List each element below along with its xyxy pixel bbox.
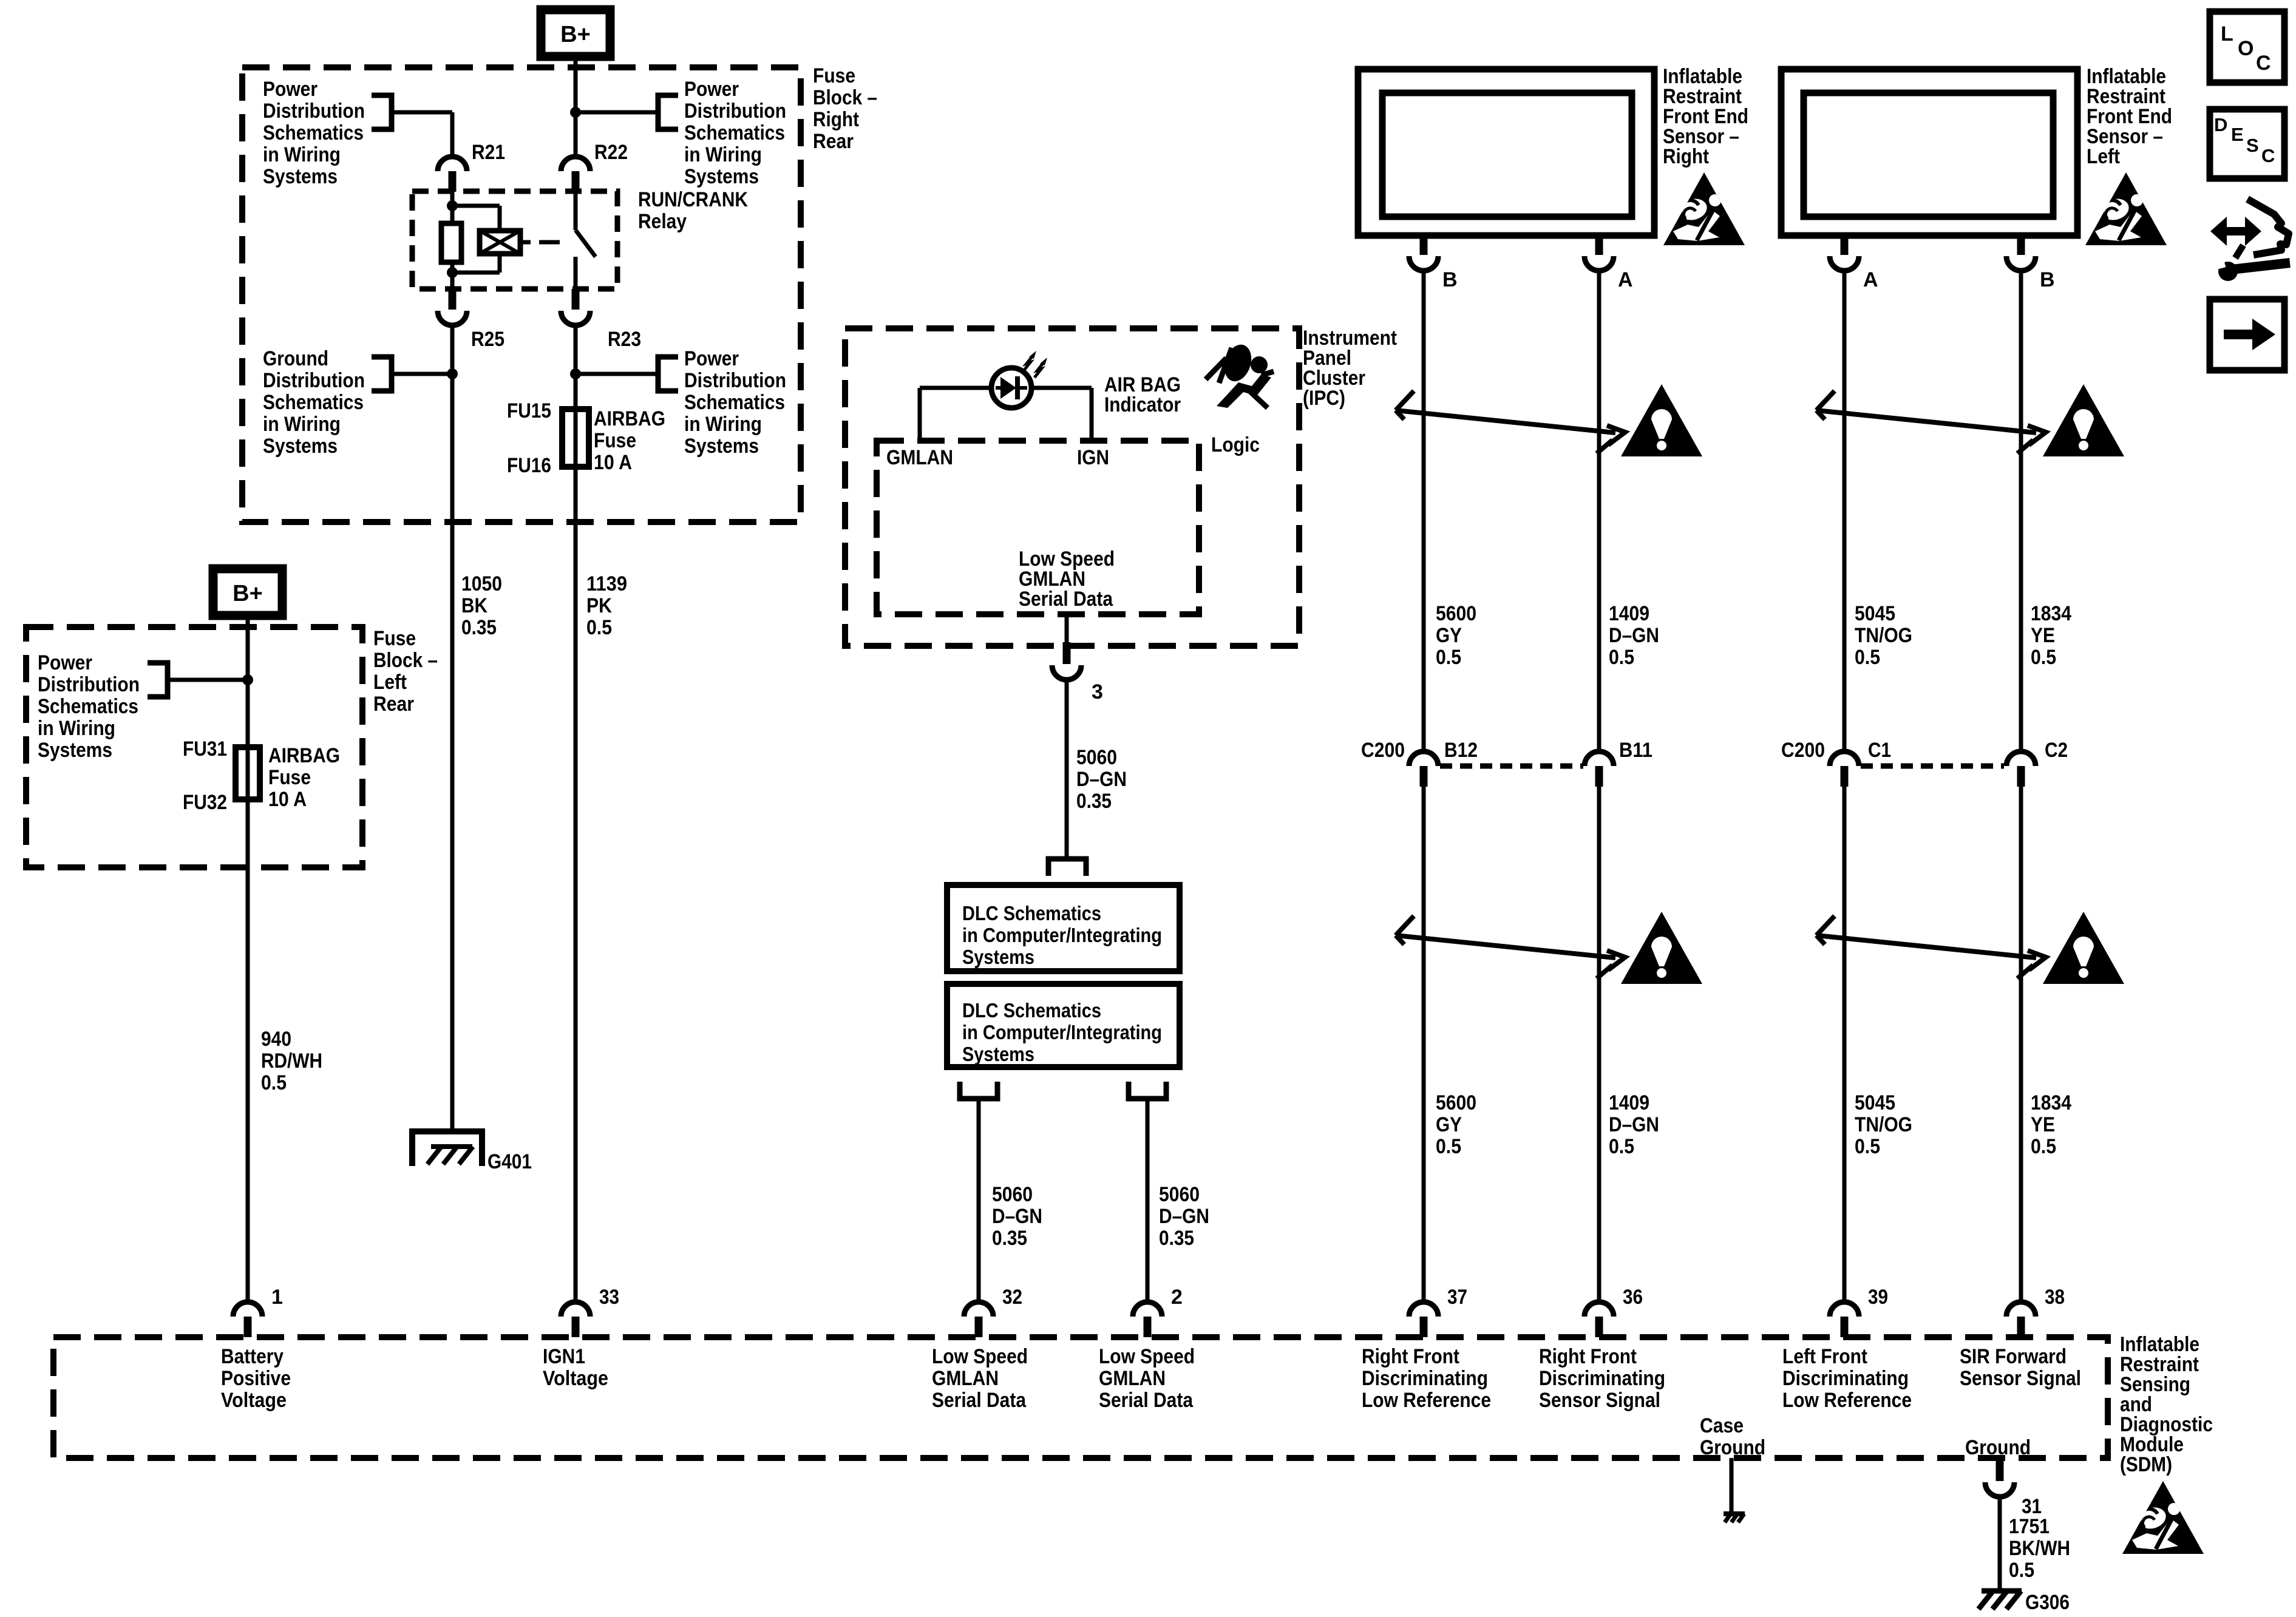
svg-text:Right: Right: [813, 108, 859, 131]
svg-text:0.5: 0.5: [1436, 1135, 1461, 1158]
connector R22: [561, 157, 590, 171]
svg-text:PK: PK: [586, 594, 612, 617]
wire below C200 x=3038: [1843, 787, 1847, 1302]
svg-text:Serial Data: Serial Data: [932, 1389, 1027, 1412]
caution arrow (top right pair): [1396, 391, 1625, 453]
svg-text:YE: YE: [2031, 624, 2055, 647]
svg-text:5600: 5600: [1436, 602, 1476, 625]
wire relay coil branch: [450, 192, 455, 223]
svg-text:1409: 1409: [1609, 1091, 1649, 1114]
icon DESC box: [2210, 109, 2284, 178]
svg-text:Block –: Block –: [373, 649, 438, 672]
svg-text:O: O: [2238, 37, 2254, 60]
svg-text:(SDM): (SDM): [2120, 1453, 2172, 1476]
wire sensor pin B down: [1422, 269, 1426, 751]
svg-text:Systems: Systems: [263, 435, 338, 458]
svg-text:S: S: [2246, 135, 2259, 156]
svg-text:3: 3: [1092, 680, 1103, 703]
icon LOC box: [2210, 12, 2284, 83]
node B+ junction: [570, 107, 581, 118]
svg-text:RD/WH: RD/WH: [261, 1049, 322, 1073]
svg-text:Block –: Block –: [813, 86, 877, 109]
wire 1751 BK/WH 0.5: [1998, 1497, 2002, 1590]
caution arrow (mid right pair): [1396, 916, 1625, 978]
svg-text:D–GN: D–GN: [992, 1205, 1042, 1228]
svg-text:Schematics: Schematics: [684, 391, 785, 414]
svg-text:33: 33: [599, 1286, 619, 1309]
svg-text:36: 36: [1623, 1286, 1643, 1309]
svg-text:Left: Left: [2087, 145, 2120, 168]
svg-text:Distribution: Distribution: [263, 369, 365, 392]
svg-text:0.35: 0.35: [1076, 790, 1112, 813]
svg-text:C200: C200: [1361, 739, 1405, 762]
svg-text:Logic: Logic: [1211, 433, 1260, 456]
connector SDM pin 33: [561, 1302, 590, 1317]
svg-text:B+: B+: [560, 22, 591, 47]
warning triangle (mid left): [2043, 912, 2124, 984]
svg-text:Ground: Ground: [263, 347, 328, 370]
connector SDM pin 36: [1584, 1302, 1614, 1317]
bracket DLC in: [1048, 859, 1086, 876]
wire junction to power distribution bracket: [576, 110, 658, 115]
svg-text:Systems: Systems: [684, 165, 759, 188]
bracket ground distribution: [372, 357, 392, 391]
switch relay contacts: [574, 192, 578, 230]
svg-text:Schematics: Schematics: [263, 391, 364, 414]
dashed link C200 right: [1440, 764, 1583, 769]
svg-text:GY: GY: [1436, 1113, 1462, 1136]
icon air bag triangle (SDM): [2122, 1481, 2204, 1554]
connector sensor pin A at x=2634: [1595, 236, 1603, 255]
svg-text:DLC Schematics: DLC Schematics: [962, 902, 1101, 924]
node coil top: [447, 200, 458, 211]
icon air bag triangle (sensor left): [2085, 172, 2167, 245]
svg-text:GMLAN: GMLAN: [1099, 1367, 1166, 1390]
svg-text:39: 39: [1868, 1286, 1888, 1309]
ground case ground symbol: [1724, 1511, 1745, 1516]
connector SDM pin 37: [1409, 1302, 1438, 1317]
svg-text:in Computer/Integrating: in Computer/Integrating: [962, 1021, 1162, 1043]
wire IGN1 through fuse: [574, 324, 578, 469]
svg-text:Fuse: Fuse: [594, 429, 636, 452]
svg-text:(IPC): (IPC): [1303, 387, 1345, 410]
svg-text:Discriminating: Discriminating: [1782, 1367, 1909, 1390]
svg-text:940: 940: [261, 1028, 291, 1051]
svg-text:0.5: 0.5: [2031, 646, 2056, 669]
wire low speed GMLAN serial data 32: [977, 1099, 981, 1302]
svg-text:0.5: 0.5: [2009, 1559, 2034, 1582]
svg-text:Low Speed: Low Speed: [1099, 1345, 1195, 1368]
svg-text:in Wiring: in Wiring: [263, 413, 341, 436]
wire low speed GMLAN serial data 2: [1146, 1099, 1150, 1302]
caution arrow (top left pair): [1816, 391, 2046, 453]
svg-text:Distribution: Distribution: [263, 100, 365, 123]
svg-text:Power: Power: [263, 78, 318, 101]
connector SDM pin 1: [233, 1302, 262, 1317]
svg-text:Right Front: Right Front: [1539, 1345, 1637, 1368]
svg-text:D–GN: D–GN: [1076, 768, 1127, 791]
svg-text:Fuse: Fuse: [373, 627, 416, 650]
svg-text:E: E: [2231, 124, 2244, 145]
svg-text:38: 38: [2045, 1286, 2065, 1309]
node coil bottom: [447, 267, 458, 278]
svg-text:GY: GY: [1436, 624, 1462, 647]
svg-text:in Wiring: in Wiring: [263, 143, 341, 166]
svg-text:C2: C2: [2045, 739, 2068, 762]
ground G401: [412, 1131, 482, 1166]
svg-text:0.5: 0.5: [1855, 646, 1880, 669]
node power distribution tap (left rear): [242, 674, 253, 685]
connector B11: [1584, 751, 1614, 766]
connector SDM pin 31: [1996, 1458, 2004, 1481]
LED light arrows: [1024, 355, 1033, 371]
svg-text:GMLAN: GMLAN: [932, 1367, 999, 1390]
svg-text:Voltage: Voltage: [543, 1367, 608, 1390]
svg-text:0.5: 0.5: [1855, 1135, 1880, 1158]
ground G306: [1982, 1588, 2022, 1594]
svg-text:D–GN: D–GN: [1609, 1113, 1659, 1136]
svg-text:1834: 1834: [2031, 602, 2071, 625]
svg-text:R25: R25: [471, 328, 504, 351]
connector sensor pin B at x=2345: [1420, 236, 1428, 255]
connector pin 3 (IPC): [1065, 614, 1069, 643]
svg-text:in Wiring: in Wiring: [38, 717, 115, 740]
svg-text:TN/OG: TN/OG: [1855, 624, 1912, 647]
svg-text:Serial Data: Serial Data: [1099, 1389, 1194, 1412]
wire B+ feed to R22: [574, 56, 578, 157]
svg-text:Systems: Systems: [263, 165, 338, 188]
connector R23: [572, 289, 580, 310]
box inflatable restraint front end sensor right: [1358, 69, 1654, 236]
svg-text:B: B: [1442, 268, 1458, 291]
svg-text:B11: B11: [1619, 739, 1652, 762]
svg-text:Systems: Systems: [684, 435, 759, 458]
connector SDM pin 2: [1133, 1302, 1162, 1317]
power symbol B+ (fuse block right rear): [541, 10, 610, 56]
svg-text:10 A: 10 A: [594, 451, 632, 474]
svg-text:R22: R22: [594, 141, 628, 164]
wire 5060 D-GN 0.35: [1065, 680, 1069, 858]
svg-text:BK: BK: [461, 594, 487, 617]
svg-text:in Wiring: in Wiring: [684, 413, 762, 436]
svg-text:Serial Data: Serial Data: [1019, 588, 1113, 611]
svg-text:37: 37: [1447, 1286, 1467, 1309]
svg-text:C: C: [2256, 52, 2271, 75]
svg-text:1409: 1409: [1609, 602, 1649, 625]
connector C200 B12: [1409, 751, 1438, 766]
svg-text:Discriminating: Discriminating: [1362, 1367, 1488, 1390]
svg-text:C1: C1: [1868, 739, 1891, 762]
node ground distribution tap: [447, 368, 458, 379]
icon wrench and route: [2210, 199, 2290, 281]
dashed link C200 left: [1861, 764, 2004, 769]
svg-text:Sensor Signal: Sensor Signal: [1539, 1389, 1660, 1412]
wire IGN1 voltage 1139 PK: [574, 467, 578, 1302]
icon air bag (IPC): [1206, 341, 1274, 408]
wire below C200 x=2634: [1597, 787, 1601, 1302]
svg-text:IGN1: IGN1: [543, 1345, 585, 1368]
svg-text:0.5: 0.5: [1436, 646, 1461, 669]
svg-text:Rear: Rear: [813, 130, 854, 153]
SDM box (inflatable restraint sensing and diagnostic module): [53, 1337, 2108, 1458]
svg-text:FU32: FU32: [183, 791, 227, 814]
svg-text:1751: 1751: [2009, 1515, 2050, 1538]
svg-text:G401: G401: [487, 1150, 532, 1173]
box DLC schematics 1: [947, 885, 1180, 971]
svg-text:Low Speed: Low Speed: [932, 1345, 1028, 1368]
svg-text:DLC Schematics: DLC Schematics: [962, 999, 1101, 1022]
instrument panel cluster box (IPC): [845, 328, 1299, 646]
svg-text:L: L: [2221, 22, 2233, 46]
svg-text:Fuse: Fuse: [813, 64, 855, 87]
svg-text:5060: 5060: [992, 1183, 1033, 1206]
bracket power distribution (fuse side): [658, 357, 678, 391]
svg-text:TN/OG: TN/OG: [1855, 1113, 1912, 1136]
connector R25: [449, 289, 457, 310]
svg-text:in Computer/Integrating: in Computer/Integrating: [962, 924, 1162, 946]
wire GMLAN to indicator: [918, 388, 922, 441]
node power distribution tap: [570, 368, 581, 379]
fuse FU15/FU16 AIRBAG fuse 10A: [562, 409, 589, 467]
svg-text:D–GN: D–GN: [1609, 624, 1659, 647]
svg-text:Power: Power: [684, 347, 739, 370]
svg-text:Systems: Systems: [962, 946, 1034, 968]
bracket power distribution (left): [372, 95, 392, 129]
svg-text:Indicator: Indicator: [1104, 393, 1181, 416]
svg-text:B: B: [2040, 268, 2055, 291]
svg-text:1834: 1834: [2031, 1091, 2071, 1114]
connector sensor pin A at x=3038: [1841, 236, 1849, 255]
svg-text:GMLAN: GMLAN: [886, 446, 953, 469]
svg-text:R23: R23: [608, 328, 641, 351]
svg-text:D: D: [2214, 114, 2227, 135]
svg-text:Case: Case: [1700, 1414, 1744, 1437]
svg-text:YE: YE: [2031, 1113, 2055, 1136]
svg-text:Systems: Systems: [962, 1043, 1034, 1065]
svg-text:0.5: 0.5: [1609, 646, 1634, 669]
svg-text:Left: Left: [373, 671, 407, 694]
fuse FU31/FU32 AIRBAG fuse 10A: [236, 747, 260, 799]
wire coil to switch dashed link: [520, 240, 531, 245]
wire battery positive 940 RD/WH: [246, 615, 250, 1302]
connector C200 C1: [1830, 751, 1859, 766]
svg-text:Ground: Ground: [1965, 1436, 2031, 1459]
svg-text:FU15: FU15: [507, 399, 551, 422]
bracket power distribution (left rear): [148, 663, 168, 697]
fuse block right rear box: [242, 67, 801, 522]
svg-text:1: 1: [271, 1286, 283, 1309]
svg-text:5045: 5045: [1855, 602, 1895, 625]
connector SDM pin 39: [1830, 1302, 1859, 1317]
svg-text:Low Reference: Low Reference: [1782, 1389, 1912, 1412]
svg-text:5045: 5045: [1855, 1091, 1895, 1114]
wire sensor pin A down: [1597, 269, 1601, 751]
svg-text:Left Front: Left Front: [1782, 1345, 1867, 1368]
svg-text:A: A: [1863, 268, 1878, 291]
svg-text:5600: 5600: [1436, 1091, 1476, 1114]
svg-text:Low Reference: Low Reference: [1362, 1389, 1491, 1412]
LED air bag indicator: [991, 368, 1031, 408]
svg-text:Relay: Relay: [638, 210, 687, 233]
svg-text:AIRBAG: AIRBAG: [594, 407, 665, 430]
caution arrow (mid left pair): [1816, 916, 2046, 978]
svg-text:0.5: 0.5: [2031, 1135, 2056, 1158]
svg-text:BK/WH: BK/WH: [2009, 1537, 2070, 1560]
svg-text:0.35: 0.35: [992, 1227, 1027, 1250]
svg-text:0.5: 0.5: [1609, 1135, 1634, 1158]
fuse block left rear box: [26, 627, 362, 867]
svg-text:Fuse: Fuse: [268, 766, 311, 789]
svg-text:Rear: Rear: [373, 693, 414, 716]
warning triangle (top right): [1621, 384, 1702, 456]
svg-text:Schematics: Schematics: [38, 695, 138, 718]
wire sensor pin B down: [2019, 269, 2023, 751]
svg-text:in Wiring: in Wiring: [684, 143, 762, 166]
svg-text:Positive: Positive: [221, 1367, 291, 1390]
wire bracket to R21: [392, 110, 452, 115]
svg-text:5060: 5060: [1076, 746, 1117, 769]
wire below C200 x=3329: [2019, 787, 2023, 1302]
svg-text:G306: G306: [2025, 1591, 2070, 1614]
connector SDM pin 32: [964, 1302, 993, 1317]
wire to coil: [452, 204, 500, 208]
svg-text:0.5: 0.5: [261, 1071, 287, 1094]
svg-text:10 A: 10 A: [268, 788, 307, 811]
bracket power distribution (right): [658, 95, 678, 129]
svg-text:A: A: [1618, 268, 1633, 291]
svg-text:1139: 1139: [586, 572, 627, 595]
svg-text:Right Front: Right Front: [1362, 1345, 1459, 1368]
wire sensor pin A down: [1843, 269, 1847, 751]
svg-text:D–GN: D–GN: [1159, 1205, 1209, 1228]
icon air bag triangle (sensor right): [1663, 172, 1745, 245]
svg-text:Power: Power: [38, 651, 92, 674]
svg-text:Power: Power: [684, 78, 739, 101]
svg-text:Distribution: Distribution: [684, 100, 786, 123]
svg-text:FU16: FU16: [507, 454, 551, 477]
svg-text:B+: B+: [233, 581, 263, 606]
wire case ground: [1730, 1458, 1734, 1513]
svg-text:32: 32: [1002, 1286, 1022, 1309]
svg-text:Systems: Systems: [38, 739, 112, 762]
svg-text:SIR Forward: SIR Forward: [1960, 1345, 2067, 1368]
connector C2: [2006, 751, 2036, 766]
svg-text:RUN/CRANK: RUN/CRANK: [638, 188, 748, 211]
svg-text:FU31: FU31: [183, 737, 227, 761]
box DLC schematics 2: [947, 984, 1180, 1067]
svg-text:B12: B12: [1444, 739, 1478, 762]
svg-text:0.35: 0.35: [461, 616, 497, 639]
svg-text:2: 2: [1171, 1286, 1183, 1309]
icon arrow box: [2210, 299, 2284, 370]
svg-text:Distribution: Distribution: [684, 369, 786, 392]
bracket DLC out left: [960, 1082, 997, 1099]
svg-text:Discriminating: Discriminating: [1539, 1367, 1665, 1390]
svg-text:IGN: IGN: [1077, 446, 1109, 469]
wire R25 down: [450, 324, 455, 1130]
relay box RUN/CRANK: [412, 191, 617, 289]
svg-text:0.5: 0.5: [586, 616, 612, 639]
svg-text:Schematics: Schematics: [263, 121, 364, 144]
coil relay solenoid (X box): [480, 231, 520, 254]
svg-text:Schematics: Schematics: [684, 121, 785, 144]
svg-text:1050: 1050: [461, 572, 502, 595]
wire below C200 x=2345: [1422, 787, 1426, 1302]
wire R23 down through fuse: [574, 324, 578, 410]
warning triangle (top left): [2043, 384, 2124, 456]
bracket DLC out right: [1129, 1082, 1166, 1099]
svg-text:5060: 5060: [1159, 1183, 1200, 1206]
svg-text:R21: R21: [472, 141, 505, 164]
svg-text:Voltage: Voltage: [221, 1389, 287, 1412]
svg-text:C200: C200: [1781, 739, 1825, 762]
svg-text:Right: Right: [1663, 145, 1709, 168]
connector SDM pin 38: [2006, 1302, 2036, 1317]
box inflatable restraint front end sensor left: [1781, 69, 2077, 236]
svg-text:C: C: [2261, 145, 2275, 166]
svg-text:0.35: 0.35: [1159, 1227, 1194, 1250]
svg-text:Sensor Signal: Sensor Signal: [1960, 1367, 2081, 1390]
connector R21: [438, 157, 467, 171]
power symbol B+ (fuse block left rear): [213, 569, 282, 615]
connector sensor pin B at x=3329: [2017, 236, 2025, 255]
warning triangle (mid right): [1621, 912, 1702, 984]
wire indicator to IGN: [1031, 386, 1092, 390]
svg-text:Ground: Ground: [1700, 1436, 1765, 1459]
svg-text:Distribution: Distribution: [38, 673, 140, 696]
resistor relay coil resistor: [441, 223, 461, 262]
svg-text:AIRBAG: AIRBAG: [268, 744, 340, 767]
svg-text:Battery: Battery: [221, 1345, 284, 1368]
logic box: [877, 441, 1199, 614]
